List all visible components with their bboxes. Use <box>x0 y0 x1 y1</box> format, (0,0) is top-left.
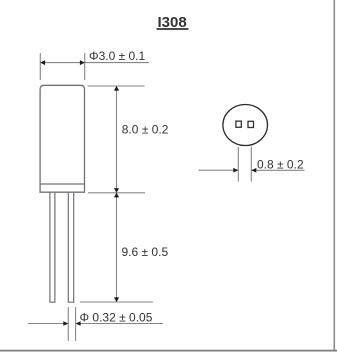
dimension Phi 3.0 +/- 0.1 : left extension line <box>39 53 41 80</box>
top view: pin 1 square <box>236 121 241 127</box>
dimension 9.6 +/- 0.5 : top arrowhead <box>114 193 119 198</box>
body base separation line <box>40 183 84 185</box>
dimension Phi 0.32 +/- 0.05 : left arrowhead <box>63 321 68 326</box>
dimension 8.0 +/- 0.2 : bottom extension line (shared with 9.6 dim) <box>88 192 145 194</box>
dimension 9.6 +/- 0.5 : bottom extension line <box>80 301 153 303</box>
dimension Phi 0.32 +/- 0.05 : left arrow line <box>28 323 69 325</box>
dimension Phi 3.0 +/- 0.1 : dimension line and leader <box>40 62 149 64</box>
svg-text:9.6 ± 0.5: 9.6 ± 0.5 <box>122 245 169 259</box>
dimension Phi 3.0 +/- 0.1 : right arrowhead <box>80 60 85 65</box>
title underline <box>157 28 189 30</box>
dimension Phi 0.32 +/- 0.05 : right leader line <box>76 323 163 325</box>
crystal body (side view) <box>40 85 84 192</box>
dimension Phi 3.0 +/- 0.1 : left arrowhead <box>40 60 45 65</box>
svg-text:0.8 ± 0.2: 0.8 ± 0.2 <box>257 157 304 171</box>
svg-text:Φ 0.32 ± 0.05: Φ 0.32 ± 0.05 <box>80 311 153 325</box>
dimension 0.8 +/- 0.2 : right leader line <box>251 169 304 171</box>
lead 1 (left) <box>50 193 55 302</box>
dimension Phi 0.32 +/- 0.05 : right extension line <box>75 307 77 341</box>
dimension 0.8 +/- 0.2 : left arrow line <box>198 169 238 171</box>
dimension 8.0 +/- 0.2 : top extension line <box>88 85 145 87</box>
lead 2 (right) <box>68 193 73 302</box>
dimension 8.0 +/- 0.2 : top arrowhead <box>114 86 119 91</box>
dimension Phi 0.32 +/- 0.05 : right arrowhead <box>76 321 81 326</box>
dimension 9.6 +/- 0.5 : vertical dimension line <box>116 193 118 302</box>
dimension 0.8 +/- 0.2 : left extension line <box>237 147 239 182</box>
dimension Phi 3.0 +/- 0.1 : right extension line <box>84 53 86 80</box>
dimension 9.6 +/- 0.5 : bottom arrowhead <box>114 297 119 302</box>
dimension 8.0 +/- 0.2 : bottom arrowhead <box>114 188 119 193</box>
frame bottom border <box>0 350 337 352</box>
dimension 8.0 +/- 0.2 : vertical dimension line <box>116 86 118 193</box>
dimension Phi 0.32 +/- 0.05 : left extension line <box>67 307 69 341</box>
top view: can outline circle <box>223 105 268 146</box>
top view: pin 2 square <box>248 121 254 127</box>
svg-text:Φ3.0 ± 0.1: Φ3.0 ± 0.1 <box>89 49 146 63</box>
dimension 0.8 +/- 0.2 : right extension line <box>250 147 252 182</box>
frame right border <box>333 0 335 351</box>
dimension 0.8 +/- 0.2 : left arrowhead <box>233 168 238 173</box>
svg-text:8.0 ± 0.2: 8.0 ± 0.2 <box>122 123 169 137</box>
dimension 0.8 +/- 0.2 : right arrowhead <box>251 168 256 173</box>
